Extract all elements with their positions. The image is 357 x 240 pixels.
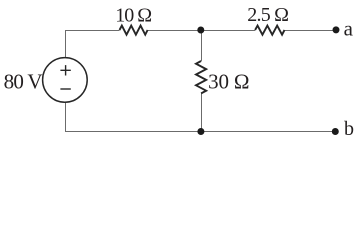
svg-text:80 V: 80 V bbox=[4, 69, 43, 93]
junction node top bbox=[197, 27, 204, 34]
wire top left bbox=[65, 30, 120, 32]
wire left vertical upper bbox=[65, 30, 67, 58]
resistor R1 zigzag 10 ohm bbox=[120, 26, 148, 35]
svg-text:10 Ω: 10 Ω bbox=[115, 4, 151, 26]
terminal node b dot bbox=[332, 128, 339, 135]
resistor R3 zigzag 30 ohm vertical bbox=[196, 61, 206, 93]
svg-text:a: a bbox=[344, 16, 354, 40]
voltage source plus sign bbox=[60, 65, 70, 75]
svg-text:b: b bbox=[344, 118, 354, 140]
wire left vertical lower bbox=[65, 102, 67, 131]
voltage source minus sign bbox=[60, 88, 70, 90]
wire top middle bbox=[148, 30, 256, 32]
wire middle vertical upper bbox=[201, 30, 203, 61]
wire middle vertical lower bbox=[201, 93, 203, 131]
resistor R2 zigzag 2.5 ohm bbox=[255, 26, 284, 35]
terminal node a dot bbox=[333, 26, 340, 33]
junction node bottom bbox=[197, 128, 204, 135]
wire bottom bbox=[65, 131, 335, 133]
voltage source V1 circle bbox=[43, 58, 88, 103]
svg-text:30 Ω: 30 Ω bbox=[208, 69, 249, 93]
svg-text:2.5 Ω: 2.5 Ω bbox=[247, 4, 288, 26]
wire top right bbox=[285, 30, 337, 32]
